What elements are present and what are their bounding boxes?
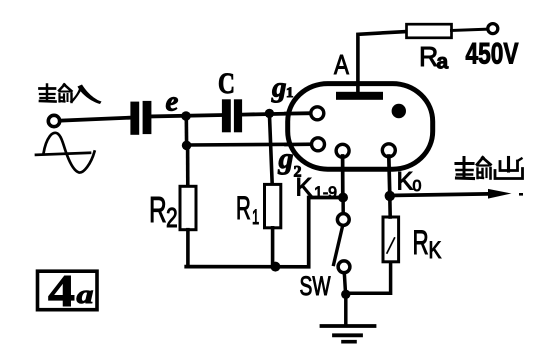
node C-g1-R1 dot <box>265 109 274 118</box>
wire node to g2 pin <box>187 142 312 146</box>
wire input to C_in <box>60 118 132 121</box>
resistor RK <box>383 217 399 262</box>
pin K1-9 <box>336 144 349 157</box>
switch top contact <box>337 214 349 226</box>
label 输出: 出 character <box>495 158 523 179</box>
wire R2 bottom <box>186 230 190 267</box>
input terminal <box>48 115 59 126</box>
output arrow wire <box>390 194 494 196</box>
svg-text:450V: 450V <box>466 38 519 71</box>
svg-text:A: A <box>334 50 349 81</box>
svg-text:K: K <box>429 236 442 264</box>
wire C to g1 pin <box>242 113 311 114</box>
svg-text:K: K <box>296 174 313 202</box>
cathode lead K1-9 <box>341 156 345 198</box>
anode lead wire <box>358 32 407 94</box>
wire e node down <box>185 116 189 145</box>
pin g1 <box>311 107 324 120</box>
wire switch to ground node <box>344 273 345 295</box>
terminal 450V <box>488 24 498 34</box>
svg-text:1: 1 <box>286 85 294 101</box>
label 输入: 入 character <box>70 85 102 105</box>
tube U envelope <box>288 84 433 170</box>
wire riser C node to R1 <box>269 113 272 184</box>
RK inner slash <box>387 238 395 253</box>
anode plate A <box>336 92 383 100</box>
svg-text:SW: SW <box>300 271 331 301</box>
switch bottom contact <box>338 261 350 273</box>
svg-text:1: 1 <box>252 205 259 229</box>
switch arm <box>334 227 343 264</box>
svg-text:K: K <box>397 168 414 196</box>
node K1-9 dot <box>338 193 348 203</box>
wire node to R2 <box>186 145 190 186</box>
pin K0 <box>382 144 395 157</box>
sine wave source symbol <box>36 153 90 155</box>
resistor R2 <box>180 186 196 229</box>
label 输出: 输 character <box>456 158 491 179</box>
capacitor C <box>222 99 242 132</box>
svg-text:4: 4 <box>48 265 75 316</box>
node e dot <box>181 111 191 121</box>
cathode lead K0 <box>389 156 390 196</box>
svg-text:1-9: 1-9 <box>314 185 337 202</box>
svg-text:R: R <box>419 40 438 72</box>
node K0 dot <box>385 191 395 201</box>
node R1-bottom dot <box>270 262 280 272</box>
wire node to g2 pin (inside tube) <box>286 142 313 146</box>
svg-text:R: R <box>149 189 167 230</box>
switch SW wire from node <box>341 198 345 214</box>
svg-text:0: 0 <box>413 178 422 195</box>
getter dot <box>392 104 406 118</box>
stray mark <box>519 193 523 196</box>
wire C to g1 pin (inside tube) <box>286 111 311 115</box>
ground node dot <box>341 290 350 299</box>
svg-text:R: R <box>236 190 251 226</box>
wire ground node to RK <box>346 262 391 293</box>
resistor R1 <box>265 184 281 227</box>
svg-text:a: a <box>77 280 94 309</box>
svg-text:g: g <box>278 142 294 175</box>
svg-text:g: g <box>271 72 287 104</box>
node below e dot <box>182 141 192 151</box>
label 输入: 输 character <box>40 85 72 103</box>
svg-text:2: 2 <box>166 203 178 234</box>
output arrowhead <box>488 189 512 199</box>
svg-text:C: C <box>218 66 235 99</box>
wire R1 bottom <box>271 228 275 267</box>
capacitor C_in (input coupling, unlabeled) <box>130 101 151 135</box>
figure label 4a box <box>38 271 98 310</box>
bottom wire <box>186 198 345 267</box>
svg-text:e: e <box>166 86 179 118</box>
svg-text:a: a <box>437 51 449 74</box>
resistor Ra <box>407 24 452 38</box>
ground symbol <box>322 324 375 328</box>
wire C_in to C <box>151 115 222 116</box>
pin g2 <box>312 138 325 151</box>
ground stem <box>344 294 348 325</box>
wire RK top to K0 node <box>388 196 392 217</box>
wire Ra to 450V terminal <box>452 29 488 30</box>
svg-text:R: R <box>413 224 429 262</box>
